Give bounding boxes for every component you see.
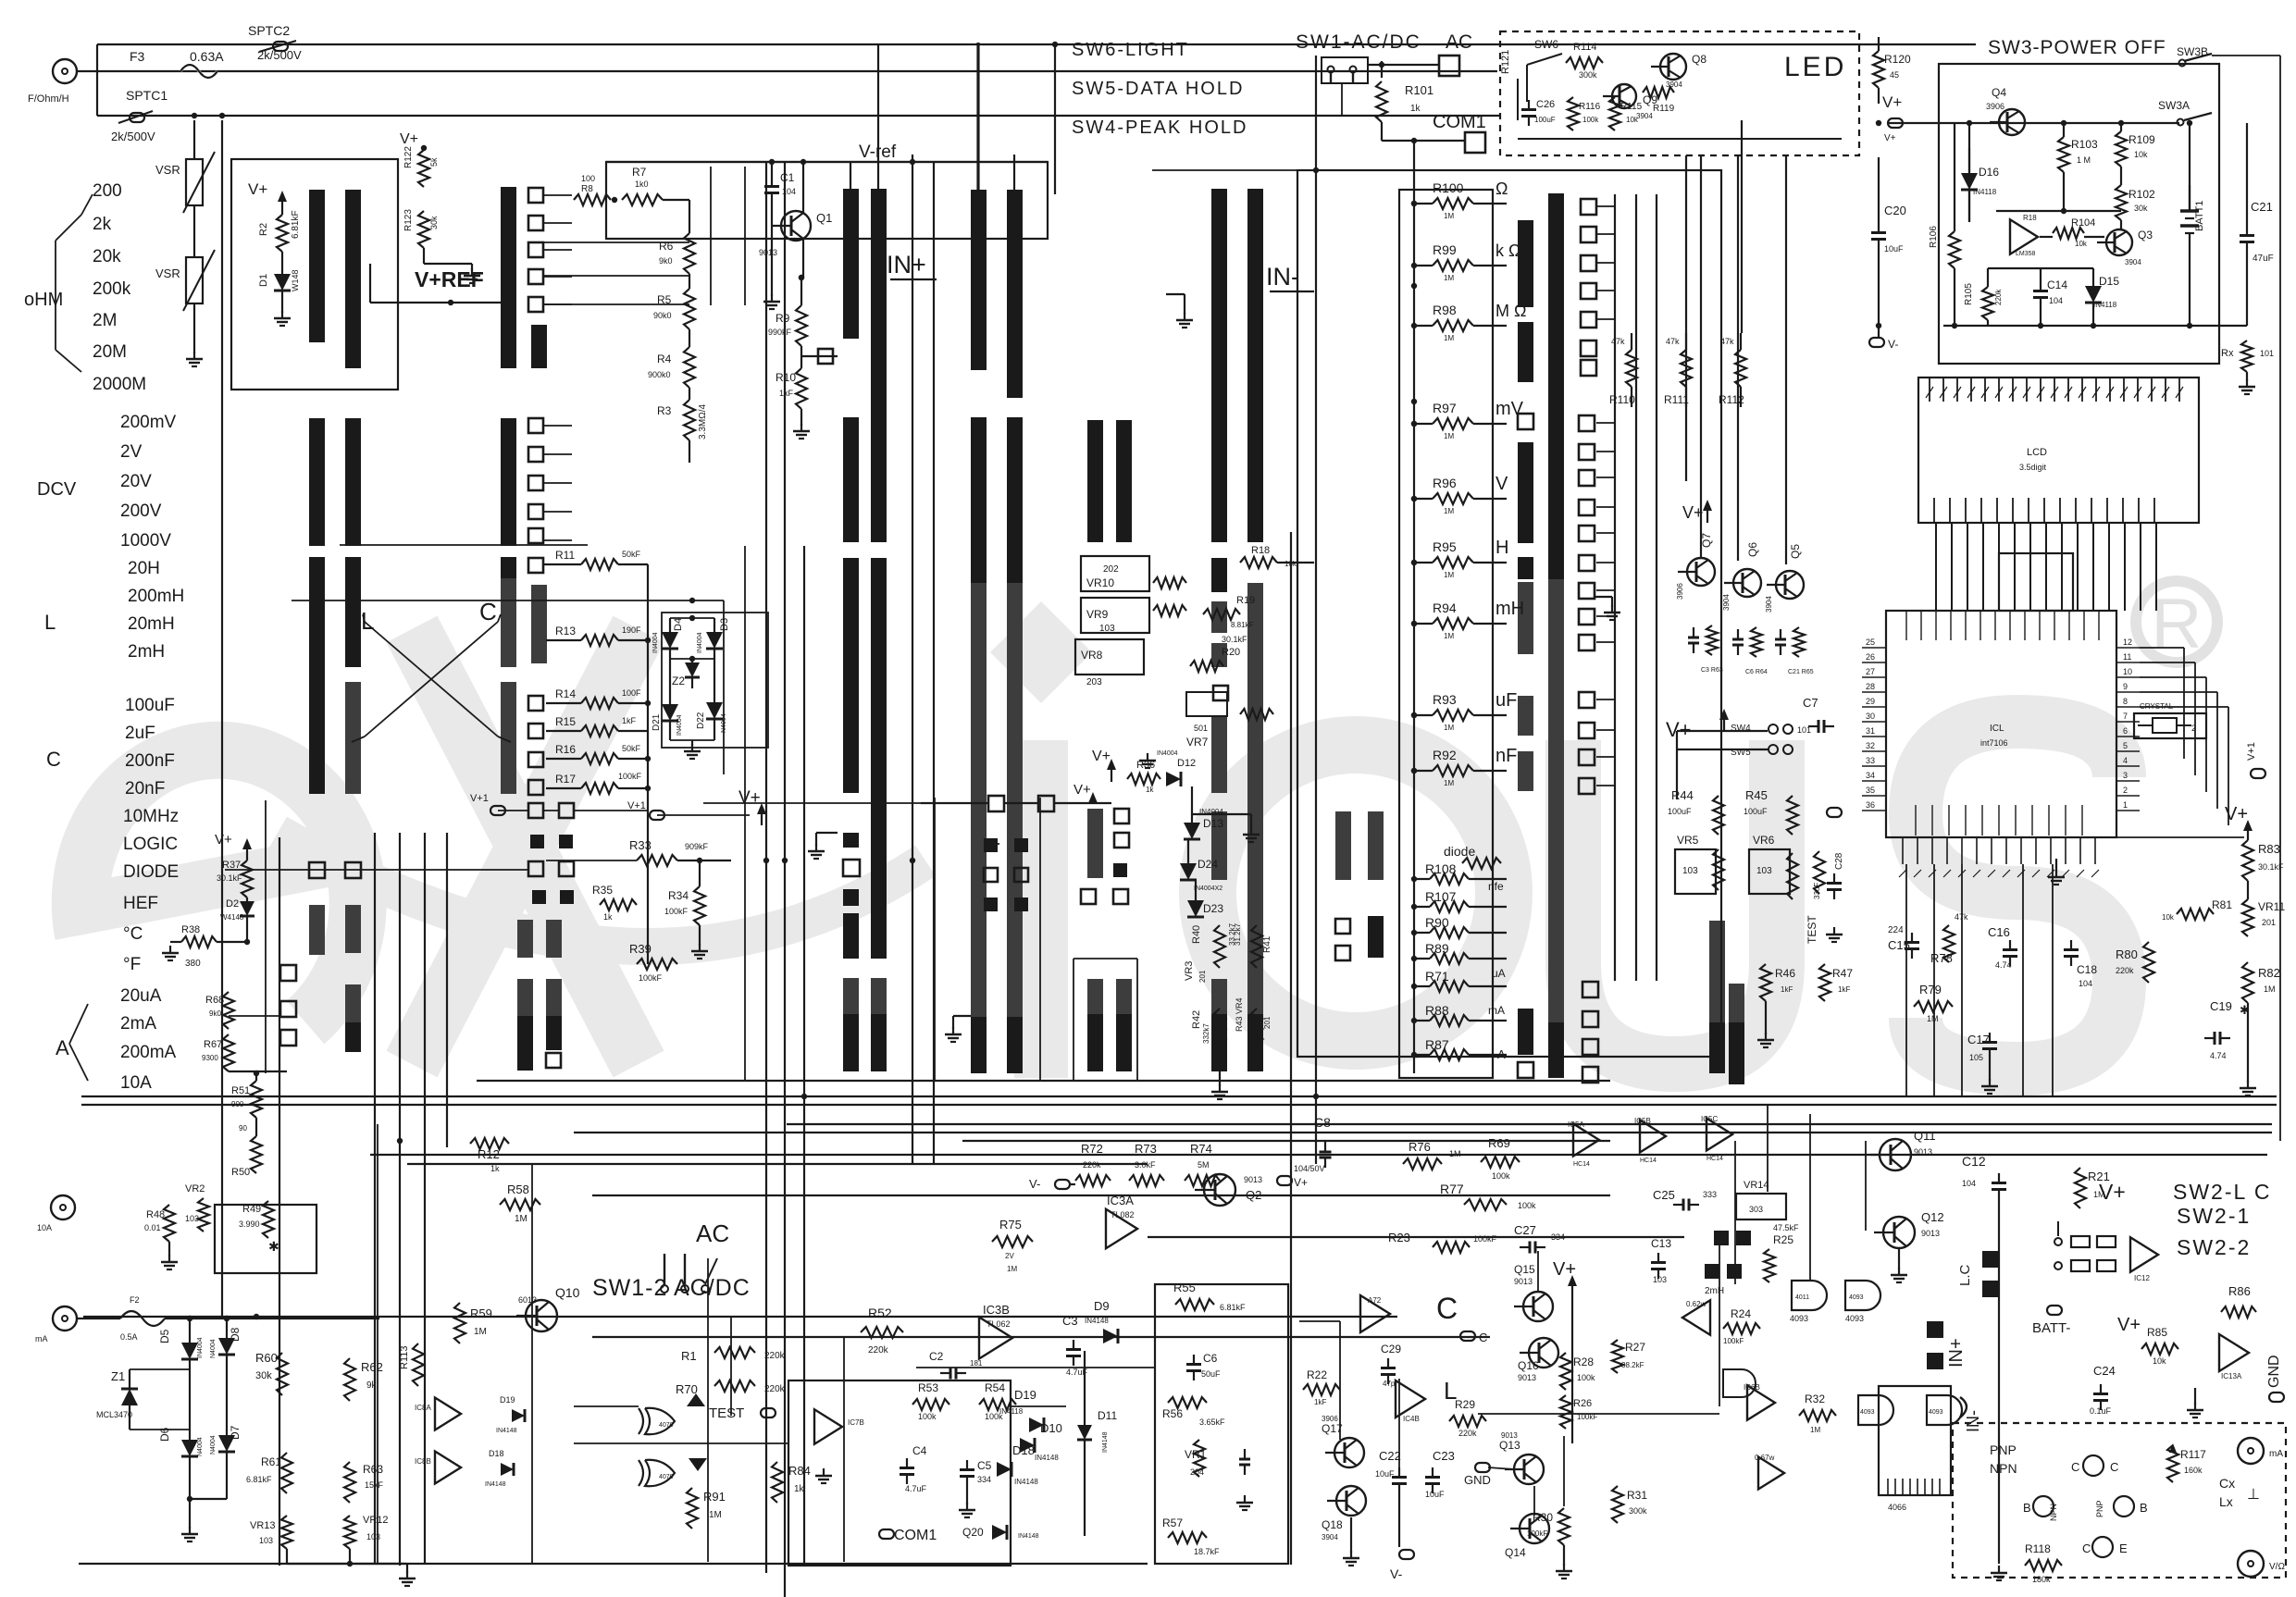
wire w1 (97, 70, 1497, 72)
label IN+ rot (1927, 1321, 1967, 1369)
terminal V right (2238, 1551, 2285, 1577)
svg-text:334: 334 (977, 1475, 991, 1484)
svg-text:C1: C1 (780, 171, 795, 184)
svg-text:IC4B: IC4B (1403, 1415, 1420, 1423)
svg-text:R81: R81 (2212, 898, 2232, 911)
ground VR8 (1139, 753, 1156, 768)
ground Rx (2239, 379, 2255, 394)
wire SW1 (1368, 61, 1388, 78)
svg-text:4093: 4093 (1860, 1409, 1875, 1416)
marker triangle up (687, 1393, 705, 1406)
svg-text:3.990: 3.990 (239, 1219, 260, 1229)
resistor R41 (1234, 922, 1272, 968)
wire SW3 rail (1939, 120, 2192, 126)
svg-text:R93: R93 (1433, 692, 1457, 707)
svg-text:R24: R24 (1731, 1307, 1751, 1320)
svg-text:D4: D4 (673, 618, 684, 631)
resistor R6 (659, 233, 695, 274)
label C big (479, 598, 497, 625)
svg-text:R100: R100 (1433, 180, 1464, 195)
svg-text:C: C (2071, 1460, 2079, 1474)
svg-text:103: 103 (1682, 866, 1698, 876)
svg-text:E: E (2119, 1541, 2128, 1555)
svg-text:R115: R115 (1620, 102, 1643, 112)
svg-text:Q4: Q4 (1992, 86, 2006, 99)
svg-text:9013: 9013 (1914, 1147, 1932, 1157)
svg-text:°C: °C (123, 924, 143, 944)
svg-text:R31: R31 (1627, 1489, 1647, 1502)
resistor R38 (181, 924, 250, 969)
svg-text:36: 36 (1866, 800, 1875, 810)
ground D13 (1192, 814, 1260, 842)
svg-text:k Ω: k Ω (1496, 241, 1520, 260)
wire chain (689, 440, 690, 463)
diode D23 (1187, 880, 1223, 917)
svg-text:12: 12 (2123, 638, 2132, 647)
svg-text:1M: 1M (474, 1327, 487, 1337)
resistor R2 (258, 210, 301, 252)
svg-text:10uF: 10uF (1375, 1469, 1395, 1479)
resistor R69 (1481, 1136, 1520, 1181)
wire drop br3 (1767, 1104, 1769, 1192)
svg-text:VR9: VR9 (1086, 608, 1109, 621)
svg-text:R118: R118 (2025, 1542, 2051, 1555)
svg-text:R57: R57 (1162, 1517, 1183, 1529)
svg-text:11: 11 (2123, 652, 2131, 662)
svg-text:4093: 4093 (1849, 1294, 1864, 1301)
svg-text:IN4004X2: IN4004X2 (1194, 885, 1222, 892)
svg-text:R59: R59 (470, 1306, 492, 1320)
resistor R72 (1075, 1142, 1111, 1186)
wire w3 (97, 115, 1500, 117)
svg-text:29: 29 (1866, 697, 1875, 706)
label TEST 2 (709, 1405, 776, 1421)
svg-text:SW6: SW6 (1534, 38, 1558, 51)
contact pads SW G (1335, 919, 1350, 960)
svg-text:9k: 9k (366, 1380, 378, 1391)
svg-text:mA: mA (1488, 1004, 1505, 1017)
dashed box LED block (1500, 31, 1859, 155)
contact pads column SW B (528, 188, 574, 1068)
label TEST (1806, 808, 1842, 944)
ground mid2 (945, 1016, 971, 1042)
wire w15 (592, 1336, 1490, 1338)
label C big2 (1436, 1292, 1458, 1325)
svg-text:SW2-L C: SW2-L C (2173, 1180, 2271, 1204)
resistor R98 (1411, 302, 1527, 342)
box VR9 (1081, 598, 1149, 633)
svg-text:R44: R44 (1671, 788, 1694, 802)
diode D3 (697, 618, 730, 659)
svg-text:AC: AC (696, 1219, 729, 1247)
wire w35 (1888, 122, 1939, 124)
svg-text:F2: F2 (130, 1295, 140, 1305)
transistor Q7 (1676, 533, 1715, 600)
ground D1 (274, 291, 291, 326)
label L.C (1957, 1251, 1999, 1297)
svg-text:R53: R53 (918, 1381, 938, 1394)
svg-text:20M: 20M (93, 342, 127, 362)
svg-text:50kF: 50kF (622, 744, 641, 753)
svg-text:R89: R89 (1425, 941, 1449, 956)
label COM1 (1433, 112, 1486, 132)
svg-text:47k: 47k (1720, 337, 1734, 346)
svg-text:4066: 4066 (1888, 1503, 1906, 1512)
svg-text:100F: 100F (622, 688, 641, 698)
svg-text:1M: 1M (1927, 1014, 1939, 1023)
svg-text:C19: C19 (2210, 999, 2232, 1013)
svg-text:220k: 220k (2116, 966, 2134, 975)
svg-text:10A: 10A (37, 1223, 52, 1232)
svg-text:D19: D19 (500, 1395, 515, 1405)
wire w13 (1148, 1236, 1684, 1238)
svg-text:9013: 9013 (1244, 1175, 1262, 1184)
diode D11 (1077, 1351, 1117, 1536)
svg-text:R122: R122 (403, 146, 414, 168)
label L big (361, 607, 374, 635)
svg-text:47.5kF: 47.5kF (1773, 1223, 1799, 1232)
resistor R73 (1129, 1142, 1164, 1186)
terminal mA bottom (35, 1306, 120, 1343)
svg-text:IN4004: IN4004 (1157, 750, 1178, 757)
label DCV (37, 479, 77, 500)
label AC big (696, 1219, 729, 1247)
svg-text:SW1-AC/DC: SW1-AC/DC (1296, 31, 1421, 53)
svg-text:200V: 200V (120, 501, 162, 521)
svg-text:Q8: Q8 (1692, 53, 1706, 66)
resistor R20 (1190, 635, 1247, 672)
resistor R86 (2221, 1284, 2256, 1318)
transistor Q2 (1195, 1174, 1262, 1206)
svg-text:R18: R18 (2023, 214, 2037, 222)
svg-text:100uF: 100uF (1668, 807, 1692, 816)
wire pads stubs Hup (1597, 206, 1616, 319)
switch wafer SW G1 (1335, 811, 1351, 880)
svg-text:D18: D18 (489, 1449, 504, 1458)
ground Q12 (1891, 1268, 1907, 1282)
wire band extra1 (787, 1123, 2272, 1125)
svg-text:R72: R72 (1081, 1142, 1103, 1156)
resistor R43 VR4 (1235, 997, 1272, 1049)
fpad osc1 (1714, 1231, 1751, 1245)
resistor R77 (1440, 1182, 1536, 1210)
wire w30 (1413, 141, 1415, 1073)
ground R10 (793, 424, 810, 439)
svg-text:8.81kF: 8.81kF (1231, 621, 1254, 629)
resistor R103 (2058, 137, 2098, 172)
label V+ r37 (215, 832, 252, 860)
svg-text:IN4118: IN4118 (999, 1407, 1024, 1416)
resistor R49 (239, 1201, 274, 1238)
svg-text:C21 R65: C21 R65 (1788, 669, 1814, 675)
svg-text:4093: 4093 (1929, 1409, 1943, 1416)
diode D19 (999, 1388, 1044, 1432)
svg-text:mV: mV (1496, 399, 1524, 419)
svg-text:900: 900 (231, 1100, 244, 1108)
contact pads column SW H low (1579, 692, 1595, 794)
box mid columns (935, 798, 1040, 1081)
wire w32 (1635, 194, 1637, 981)
svg-text:IC12: IC12 (2134, 1274, 2150, 1282)
svg-text:M Ω: M Ω (1496, 302, 1526, 320)
svg-text:100kF: 100kF (1527, 1529, 1547, 1538)
svg-text:103: 103 (1756, 866, 1772, 876)
svg-text:IC5C: IC5C (1701, 1115, 1718, 1123)
box LCD display (1918, 378, 2199, 523)
resistor R46 (1760, 964, 1795, 1001)
svg-text:6.81kF: 6.81kF (1220, 1303, 1246, 1312)
svg-text:HC14: HC14 (1640, 1158, 1657, 1164)
resistor R108 (1411, 861, 1507, 885)
svg-text:R27: R27 (1625, 1341, 1645, 1354)
svg-text:C: C (1436, 1292, 1458, 1325)
svg-text:3906: 3906 (1322, 1415, 1338, 1423)
svg-text:220k: 220k (764, 1351, 786, 1361)
label misc ranges (123, 807, 179, 974)
resistor R33 (629, 838, 731, 866)
svg-text:VR5: VR5 (1677, 834, 1699, 847)
svg-text:R12: R12 (478, 1147, 500, 1161)
label V- pin2 (1029, 1177, 1075, 1191)
svg-text:2: 2 (2191, 724, 2196, 733)
svg-text:201: 201 (2262, 918, 2276, 927)
svg-text:R36: R36 (1136, 760, 1155, 771)
svg-text:181: 181 (970, 1359, 983, 1368)
svg-text:R38: R38 (181, 924, 200, 935)
box bottom-left logic (788, 1380, 1011, 1566)
svg-text:1M: 1M (1444, 571, 1454, 579)
resistor R32 (1799, 1393, 1836, 1434)
svg-text:C6 R64: C6 R64 (1745, 669, 1768, 675)
resistor R45 (1744, 788, 1798, 835)
svg-text:R61: R61 (261, 1455, 281, 1468)
capacitor C16 (1988, 925, 2017, 970)
resistor R3 (657, 388, 695, 440)
op-amp IC3A (1106, 1194, 1137, 1248)
contact pad SW F (1213, 686, 1228, 700)
svg-text:3904: 3904 (1666, 80, 1682, 89)
wire w22 (765, 162, 767, 1573)
svg-text:104: 104 (2049, 296, 2063, 305)
label star (268, 1239, 279, 1254)
svg-text:IN4148: IN4148 (1035, 1454, 1059, 1462)
resistor Rdiode (1462, 858, 1501, 869)
label V+ r36 (1092, 749, 1116, 782)
resistor Rx (2221, 340, 2274, 381)
svg-text:BATT1: BATT1 (2194, 201, 2205, 231)
fpad osc2 (1705, 1264, 1742, 1296)
capacitor C8 (1294, 1115, 1332, 1173)
transistor Q11 (1870, 1129, 1936, 1170)
box R55 filter block (1155, 1284, 1288, 1564)
resistor R47 (1819, 964, 1853, 1001)
diode D9 (1085, 1299, 1118, 1343)
label C (46, 748, 61, 771)
ground D6 (181, 1499, 198, 1541)
svg-text:SW1-2 AC/DC: SW1-2 AC/DC (592, 1275, 751, 1301)
resistor R50 (231, 1118, 262, 1178)
svg-text:VSR: VSR (155, 266, 180, 280)
transistor Q17 (1322, 1415, 1364, 1467)
cross wires L C (352, 614, 511, 742)
svg-text:R119: R119 (1653, 104, 1675, 114)
box VR10 (1081, 556, 1149, 591)
wire w27 (1054, 44, 1056, 194)
label V+ mid (1666, 709, 1729, 741)
svg-text:IN4004: IN4004 (652, 632, 659, 653)
diode D15 (2085, 275, 2119, 309)
label 4093 a (1790, 1314, 1864, 1323)
brace A (69, 1004, 88, 1081)
diode D5 (158, 1316, 204, 1359)
pot VR7 (1186, 692, 1273, 749)
svg-text:R91: R91 (703, 1490, 726, 1504)
svg-text:SPTC1: SPTC1 (126, 88, 168, 103)
svg-text:104: 104 (2079, 979, 2092, 988)
switch wafer SW D2 (1007, 190, 1023, 1073)
wire w37 (370, 302, 504, 303)
wire w18 (374, 833, 376, 1564)
capacitor C cluster (1688, 627, 1786, 655)
ground R123 (464, 264, 480, 283)
svg-text:R19: R19 (1236, 595, 1255, 606)
resistor R44 (1668, 788, 1724, 835)
svg-text:mH: mH (1496, 599, 1524, 619)
wire w0 (97, 43, 1976, 45)
svg-text:4093: 4093 (1790, 1314, 1808, 1323)
svg-text:200k: 200k (93, 279, 131, 299)
svg-text:SW4: SW4 (1731, 724, 1751, 734)
svg-text:COM1: COM1 (1433, 112, 1486, 132)
ground VSR (186, 352, 203, 366)
svg-text:2M: 2M (93, 311, 117, 330)
resistor R55 (1173, 1281, 1246, 1312)
wire w34 (1741, 120, 1743, 333)
svg-text:9013: 9013 (1501, 1431, 1518, 1440)
svg-text:201: 201 (1263, 1016, 1272, 1029)
ground R34 (691, 944, 708, 959)
svg-text:R71: R71 (1425, 969, 1449, 984)
svg-text:IN4004: IN4004 (697, 632, 703, 653)
resistor R31 (1612, 1486, 1647, 1523)
label SW2-2 (2177, 1235, 2251, 1259)
resistor R8 (574, 174, 611, 205)
svg-text:1k: 1k (794, 1484, 805, 1494)
box analog 4066 (1879, 1386, 1951, 1495)
svg-text:2000M: 2000M (93, 375, 146, 394)
svg-text:35: 35 (1866, 786, 1875, 795)
resistor R22 (1303, 1368, 1340, 1406)
label C ranges (125, 696, 175, 798)
svg-text:V-: V- (1029, 1177, 1040, 1191)
svg-text:25: 25 (1866, 638, 1875, 647)
resistor R13 (546, 625, 648, 646)
brace ohm (56, 194, 93, 372)
varistor VSR2 (155, 250, 215, 353)
svg-text:R41: R41 (1262, 935, 1272, 953)
resistor R104 (2053, 217, 2095, 248)
resistor R70 (676, 1380, 786, 1396)
resistor R67 (202, 1034, 234, 1071)
svg-text:2mH: 2mH (1705, 1286, 1724, 1296)
svg-text:3.5digit: 3.5digit (2019, 463, 2047, 472)
svg-text:W148: W148 (291, 269, 300, 291)
svg-text:4.7uF: 4.7uF (905, 1484, 927, 1493)
svg-text:R74: R74 (1190, 1142, 1212, 1156)
ground R38 (162, 942, 181, 960)
ic 4066 pins (1888, 1479, 1940, 1512)
svg-text:6.81kF: 6.81kF (291, 210, 301, 239)
svg-text:3904: 3904 (1636, 112, 1653, 120)
svg-text:45: 45 (1890, 70, 1899, 80)
svg-text:A: A (56, 1036, 69, 1059)
transistor Q14 (1505, 1514, 1549, 1559)
svg-text:3906: 3906 (1986, 102, 2004, 111)
svg-text:Z1: Z1 (111, 1369, 125, 1383)
svg-text:Ω: Ω (1496, 180, 1508, 198)
svg-text:IC8A: IC8A (415, 1404, 431, 1412)
svg-text:R8: R8 (581, 184, 593, 194)
op-amp IC8B (415, 1452, 461, 1484)
svg-text:5M: 5M (1198, 1160, 1210, 1170)
svg-text:IN4148: IN4148 (1014, 1478, 1038, 1486)
ground C18 bus (2048, 859, 2065, 885)
zener Z1 (96, 1369, 190, 1430)
svg-text:R48: R48 (146, 1209, 165, 1220)
svg-text:D8: D8 (229, 1327, 242, 1342)
pot VR8 value (1081, 649, 1103, 687)
svg-text:33: 33 (1866, 756, 1875, 765)
svg-text:C: C (2110, 1460, 2118, 1474)
svg-text:1M: 1M (1449, 1149, 1461, 1158)
terminal mA right (2238, 1438, 2283, 1464)
resistor R100 (1411, 180, 1508, 220)
svg-text:9013: 9013 (1921, 1229, 1940, 1238)
op-amp IC4A (1360, 1295, 1390, 1332)
svg-text:C12: C12 (1962, 1154, 1986, 1169)
wire left col v (229, 800, 280, 1073)
svg-text:R75: R75 (999, 1218, 1022, 1232)
svg-text:R77: R77 (1440, 1182, 1464, 1196)
svg-text:mA: mA (2269, 1449, 2283, 1459)
transistor Q6 (1722, 542, 1761, 611)
svg-text:10k: 10k (2162, 913, 2175, 922)
label SW2-1 (2177, 1204, 2251, 1228)
transistor Q8 (1651, 53, 1706, 89)
wire w20 (424, 833, 426, 1564)
ground IN- (1166, 294, 1193, 328)
label V+ top (248, 180, 287, 215)
svg-text:202: 202 (1103, 564, 1119, 575)
label V- bottom (1390, 1493, 1414, 1581)
socket C E (2082, 1537, 2128, 1557)
fuse F2 (120, 1295, 165, 1342)
svg-text:30k: 30k (429, 216, 439, 229)
dashed box transistor socket block (1953, 1423, 2286, 1578)
svg-text:4.74: 4.74 (2210, 1051, 2227, 1060)
diode D13 (1184, 786, 1223, 839)
label L (44, 611, 56, 634)
svg-text:°F: °F (123, 955, 141, 974)
svg-text:LM358: LM358 (2016, 251, 2036, 257)
svg-text:38.2kF: 38.2kF (1621, 1361, 1644, 1369)
svg-text:COM1: COM1 (894, 1528, 937, 1543)
svg-text:15kF: 15kF (365, 1480, 384, 1490)
svg-text:R104: R104 (2071, 217, 2095, 229)
svg-text:104: 104 (1962, 1179, 1976, 1188)
label V+ pin (1882, 93, 1903, 143)
svg-text:C6: C6 (1203, 1352, 1218, 1365)
